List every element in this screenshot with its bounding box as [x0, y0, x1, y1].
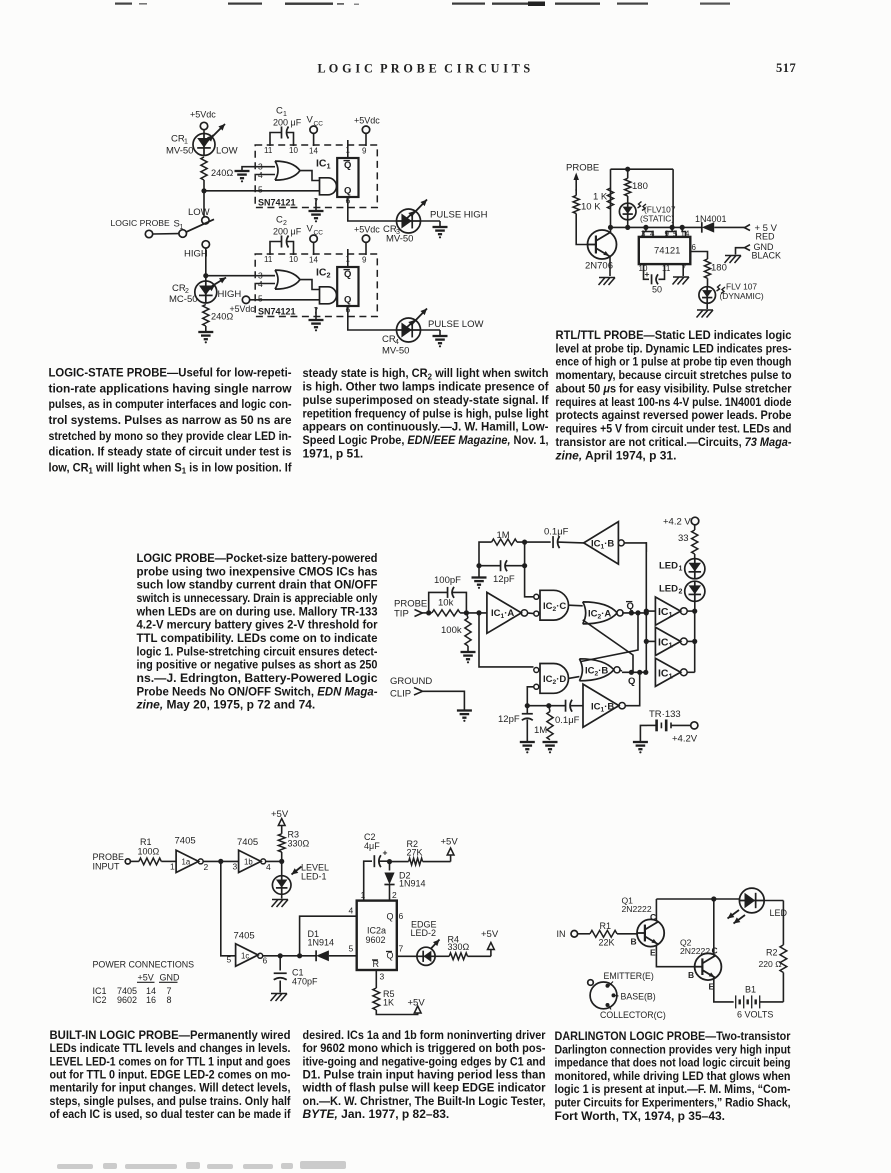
pin 6 output wire (IC2): [348, 306, 397, 330]
svg-text:LED: LED: [659, 561, 678, 572]
svg-text:MC-50: MC-50: [169, 294, 198, 305]
node junction CR1/S1/pin5: [201, 188, 206, 193]
input terminal: [145, 230, 178, 237]
Q1 emitter wire to Q2 base: [656, 945, 694, 967]
svg-text:5: 5: [258, 185, 263, 195]
inverter 1a: [170, 850, 209, 872]
NAND IC2-D: [534, 664, 569, 694]
LED output rail: [694, 611, 696, 672]
svg-text:Q: Q: [628, 676, 635, 687]
pin 1 wire (IC1): [347, 140, 349, 158]
junction dots on row: [608, 225, 685, 230]
svg-text:1a: 1a: [182, 858, 191, 867]
svg-text:monitored, while driving LED t: monitored, while driving LED that glows …: [555, 1069, 791, 1083]
svg-text:16: 16: [146, 995, 156, 1005]
svg-text:IC1​: IC1​: [316, 158, 331, 171]
right rail to battery: [782, 973, 784, 1002]
svg-text:requires +5 V from circuit und: requires +5 V from circuit under test. L…: [556, 422, 792, 436]
wire Qbar to LED-2: [397, 955, 417, 957]
svg-text:+5Vdc: +5Vdc: [354, 225, 380, 235]
pin 5 wire (IC1): [204, 190, 320, 192]
switch S1 upper contact LOW: [188, 207, 210, 224]
resistor 33: [678, 530, 698, 554]
svg-text:L O G I C P R O B E C I R C: L O G I C P R O B E C I R C U I T S: [317, 62, 530, 76]
buffer 1 wires: [644, 609, 698, 614]
wire to IC2-D bottom input: [527, 687, 533, 706]
svg-text:out for TTL 0 input. EDGE LED-: out for TTL 0 input. EDGE LED-2 comes on…: [50, 1068, 291, 1082]
svg-text:level at probe tip. Dynamic LE: level at probe tip. Dynamic LED indicate…: [556, 341, 792, 355]
wire node down to IC2-C top input: [525, 542, 534, 597]
Qbar node: [622, 601, 649, 616]
svg-text:when LEDs are on during use. M: when LEDs are on during use. Mallory TR-…: [136, 604, 378, 618]
svg-text:6: 6: [399, 911, 404, 921]
svg-text:TR·133: TR·133: [649, 709, 681, 720]
labels Q2: [680, 938, 718, 992]
node after 10k: [460, 610, 487, 615]
svg-text:TIP: TIP: [394, 609, 409, 620]
+5V R3 feed: [271, 809, 289, 834]
svg-text:11: 11: [264, 255, 273, 264]
pin 7 ground (IC1): [309, 198, 324, 222]
svg-text:protects against reversed powe: protects against reversed power leads. P…: [556, 408, 792, 422]
wire IC1-B bottom to Q: [625, 672, 639, 705]
svg-text:GND: GND: [160, 973, 181, 983]
svg-text:9: 9: [362, 256, 367, 265]
buffer 3 wires: [687, 671, 695, 673]
svg-text:14: 14: [309, 256, 318, 265]
svg-text:27K: 27K: [407, 848, 423, 858]
label PROBE TIP: [394, 599, 427, 620]
svg-text:+5Vdc: +5Vdc: [230, 304, 256, 314]
Q2 collector wire: [713, 899, 715, 956]
ground below 1M bottom: [543, 742, 558, 753]
svg-text:B: B: [688, 970, 694, 980]
wire OR output to AND input (IC1): [300, 171, 320, 181]
probe input arrow: [573, 173, 578, 192]
svg-text:+5Vdc: +5Vdc: [354, 116, 380, 126]
wire 33 to LED1: [694, 554, 696, 559]
svg-text:about 50 μs for easy visibilit: about 50 μs for easy visibility. Pulse s…: [556, 381, 792, 395]
+5Vdc terminal pin 9 (IC2): [354, 225, 380, 256]
ground below 12pF bottom: [520, 742, 535, 753]
inverter IC1-B bottom: [583, 684, 625, 727]
svg-text:HIGH: HIGH: [184, 249, 208, 260]
caption: BUILT-IN LOGIC PROBE col1: [50, 1028, 292, 1121]
svg-text:1: 1: [679, 566, 683, 573]
probe tip connector: [415, 610, 423, 617]
wire CR4 to ground: [421, 330, 441, 336]
resistor R4 330ohm: [435, 935, 491, 960]
svg-text:+5V: +5V: [271, 809, 289, 820]
svg-text:desired. ICs 1a and 1b form no: desired. ICs 1a and 1b form noninverting…: [303, 1028, 546, 1042]
svg-text:Q: Q: [344, 295, 351, 306]
svg-text:+4.2 V: +4.2 V: [663, 517, 691, 528]
label IN terminal: [557, 929, 591, 939]
transistor pinout circle: [588, 980, 617, 1009]
Q node: [619, 670, 648, 687]
resistor 1K: [593, 188, 614, 209]
svg-text:IC2a: IC2a: [367, 926, 386, 936]
svg-text:mentarily for input changes. W: mentarily for input changes. Will detect…: [50, 1081, 291, 1095]
svg-text:BASE(B): BASE(B): [621, 992, 656, 1002]
svg-text:B1: B1: [745, 985, 756, 995]
labels Q1: [622, 896, 657, 958]
label CR1 MV-50: [166, 134, 238, 157]
resistor R1 100ohm: [138, 837, 162, 865]
svg-text:puter Circuits for Experimente: puter Circuits for Experimenters,” Radio…: [555, 1096, 791, 1110]
wire up to pin 4: [300, 916, 357, 956]
LED FLV107 dynamic: [699, 287, 716, 304]
label 7405 (1b): [237, 837, 258, 848]
feedback rail left: [479, 542, 492, 577]
svg-text:LOGIC-STATE PROBE—Useful for l: LOGIC-STATE PROBE—Useful for low-repeti-: [49, 366, 292, 380]
svg-text:BUILT-IN LOGIC PROBE—Permanent: BUILT-IN LOGIC PROBE—Permanently wired: [50, 1028, 291, 1042]
resistor 180 (dynamic): [704, 259, 726, 278]
wire IC2-D to IC2-B: [569, 677, 580, 679]
svg-text:IC2·B: IC2·B: [585, 666, 608, 678]
svg-text:330Ω: 330Ω: [288, 839, 310, 849]
scan artifact: faint clipped text bottom edge: [57, 1161, 346, 1169]
node input junction: [422, 610, 432, 615]
svg-text:stretched by mono so they prov: stretched by mono so they provide clear …: [49, 429, 292, 443]
svg-text:IC2·D: IC2·D: [543, 674, 566, 686]
caption: LOGIC PROBE (CMOS): [136, 551, 378, 712]
svg-text:100pF: 100pF: [434, 575, 461, 586]
+5V RED connector: [745, 223, 778, 242]
svg-text:SN74121: SN74121: [258, 307, 296, 317]
svg-text:+: +: [645, 269, 650, 279]
cross coupling from Q: [583, 620, 633, 672]
svg-text:R1: R1: [600, 921, 612, 931]
diode D1 1N914: [308, 929, 335, 961]
svg-text:9602: 9602: [366, 935, 386, 945]
svg-text:HIGH: HIGH: [218, 289, 242, 300]
resistor 1M bottom: [534, 706, 553, 740]
caption: LOGIC-STATE PROBE col1: [49, 366, 293, 476]
resistor 10k: [432, 598, 460, 617]
wire junction to LED-1: [281, 861, 283, 876]
svg-text:BLACK: BLACK: [752, 251, 782, 261]
buffer 2 wires: [644, 639, 698, 644]
svg-text:2N2222: 2N2222: [680, 946, 710, 956]
LED FLV107 static: [619, 203, 636, 220]
inverter IC1-B top (facing left): [584, 522, 625, 564]
label FLV107 DYNAMIC: [720, 282, 764, 302]
LED CR2 MC-50: [195, 278, 226, 304]
svg-text:200 μF: 200 μF: [273, 118, 302, 128]
svg-text:+5Vdc: +5Vdc: [190, 110, 216, 120]
light squiggles static: [638, 202, 647, 211]
svg-text:LOGIC PROBE—Pocket-size batter: LOGIC PROBE—Pocket-size battery-powered: [137, 551, 378, 565]
svg-text:CR: CR: [171, 134, 185, 145]
NAND IC2-C: [534, 590, 569, 620]
resistor R2 220ohm: [759, 945, 787, 973]
+5V arrow R4: [481, 929, 499, 956]
wire 1K top to rail: [610, 169, 612, 188]
transistor Q2 2N2222: [695, 953, 722, 980]
svg-text:CLIP: CLIP: [390, 689, 411, 700]
svg-text:C: C: [276, 106, 283, 117]
ground clip ground: [457, 711, 472, 722]
svg-text:4: 4: [349, 906, 354, 916]
switch S1 lower contact HIGH: [184, 241, 210, 260]
svg-text:1b: 1b: [244, 858, 253, 867]
svg-text:12pF: 12pF: [493, 574, 515, 585]
svg-text:LEDs indicate TTL levels and c: LEDs indicate TTL levels and changes in …: [50, 1041, 291, 1055]
svg-text:appears on continuously.—J. W.: appears on continuously.—J. W. Hamill, L…: [303, 420, 549, 434]
svg-text:6: 6: [263, 956, 268, 966]
svg-text:on.—K. W. Christner, The Built: on.—K. W. Christner, The Built-In Logic …: [303, 1094, 546, 1108]
node junction CR2/pin3: [203, 273, 208, 278]
svg-text:1971, p 51.: 1971, p 51.: [303, 446, 364, 460]
+4.2V terminal top: [663, 517, 699, 531]
probe input terminal: [125, 859, 139, 864]
resistor 240ohm (CR1): [201, 157, 233, 180]
svg-text:1N914: 1N914: [308, 938, 335, 948]
svg-text:IC1·B: IC1·B: [591, 539, 614, 551]
flipflop block (IC2): [337, 267, 358, 306]
svg-text:D1. Pulse train input having p: D1. Pulse train input having period less…: [303, 1068, 546, 1082]
ground right of CR3: [433, 227, 448, 238]
flipflop block (IC1): [337, 158, 358, 197]
resistor 1M top: [492, 530, 517, 545]
ground battery: [633, 742, 648, 753]
svg-text:ns.—J. Edrington, Battery-: ns.—J. Edrington, Battery-Powered Logic: [137, 671, 378, 685]
pin stubs 9 5: [667, 227, 677, 237]
svg-text:LED-1: LED-1: [301, 872, 327, 882]
svg-text:dication. If steady state of c: dication. If steady state of circuit und…: [49, 445, 292, 459]
svg-text:11: 11: [264, 146, 273, 155]
svg-text:for 9602 mono which is trigger: for 9602 mono which is triggered on both…: [303, 1041, 546, 1055]
+5Vdc terminal top: [190, 110, 216, 134]
svg-text:0.1μF: 0.1μF: [544, 527, 569, 538]
svg-text:6 VOLTS: 6 VOLTS: [737, 1010, 773, 1020]
svg-text:itive-going and negative-going: itive-going and negative-going edges by …: [303, 1054, 546, 1068]
svg-text:Q: Q: [344, 269, 351, 280]
svg-text:transistor are not critical.—C: transistor are not critical.—Circuits, 7…: [556, 435, 792, 449]
label GROUND CLIP: [390, 676, 432, 700]
wire cap to IC1-B top: [558, 541, 584, 544]
svg-text:SN74121: SN74121: [258, 198, 296, 208]
resistor R3 330ohm: [278, 830, 309, 862]
battery ground wire: [640, 725, 647, 741]
wire lower contact to junction 2: [205, 248, 207, 281]
svg-text:4μF: 4μF: [364, 841, 380, 851]
wire 10K to base: [576, 214, 588, 245]
svg-text:LOGIC PROBE: LOGIC PROBE: [111, 218, 170, 228]
svg-text:0.1μF: 0.1μF: [555, 715, 580, 726]
label CR3 MV-50: [383, 224, 413, 245]
svg-text:repetition frequency of pulse: repetition frequency of pulse is high, p…: [303, 406, 549, 420]
svg-text:74121: 74121: [654, 246, 680, 257]
collector wire to rail: [610, 188, 612, 233]
svg-text:10k: 10k: [438, 598, 454, 609]
svg-text:Q: Q: [344, 160, 351, 171]
svg-text:100k: 100k: [441, 625, 462, 636]
svg-text:PROBE: PROBE: [93, 852, 125, 862]
LED-1 LEVEL: [272, 876, 291, 895]
GND BLACK connector: [745, 242, 782, 261]
svg-text:1c: 1c: [241, 952, 249, 961]
svg-text:5: 5: [258, 294, 263, 304]
svg-text:IC2·C: IC2·C: [543, 601, 566, 613]
OR gate (IC1): [275, 161, 300, 180]
svg-text:DARLINGTON LOGIC PROBE—Two-tra: DARLINGTON LOGIC PROBE—Two-transistor: [555, 1029, 791, 1043]
svg-text:requires at least 100-ns 4-V p: requires at least 100-ns 4-V pulse. 1N40…: [556, 395, 792, 409]
ground for GND terminal: [725, 256, 742, 264]
buffer 3 IC1: [655, 658, 687, 686]
pin stubs 3 and 4: [643, 227, 653, 237]
wire resistor to junction: [203, 180, 205, 191]
diode 1N4001: [695, 214, 727, 233]
battery terminal +4.2V: [672, 722, 698, 745]
Q1 collector wire: [655, 899, 657, 922]
pin labels bottom 74121: [639, 264, 687, 273]
wire 1a to 1b: [203, 859, 238, 864]
svg-text:6: 6: [692, 243, 697, 252]
svg-text:1: 1: [170, 862, 175, 872]
svg-text:RED: RED: [756, 232, 776, 242]
wire LED2 to buffer junction: [694, 601, 696, 611]
svg-text:logic 1 is present at input.—F: logic 1 is present at input.—F. M. Mims,…: [555, 1082, 791, 1096]
top rail: [611, 167, 674, 172]
resistor 240ohm (CR2): [203, 305, 234, 327]
LED CR3 MV-50 output: [397, 200, 428, 234]
wire static LED to junction row: [627, 220, 629, 228]
wire 180 to dynamic LED: [707, 278, 709, 287]
svg-text:11: 11: [662, 264, 671, 273]
ground below 100k: [461, 652, 476, 663]
svg-text:517: 517: [776, 61, 796, 75]
caption: RTL/TTL PROBE: [555, 328, 792, 462]
svg-text:Q: Q: [344, 186, 351, 197]
Vcc terminal pin 14 (IC1): [307, 115, 324, 147]
label LOGIC PROBE: [111, 218, 170, 228]
wire pin1 to C2: [364, 861, 372, 900]
svg-text:zine, April 1974, p 31.: zine, April 1974, p 31.: [555, 448, 677, 462]
page number 517: [776, 61, 796, 75]
label CR4 MV-50: [382, 334, 409, 357]
svg-text:C: C: [650, 912, 656, 922]
svg-text:C: C: [276, 215, 283, 226]
svg-text:2: 2: [679, 589, 683, 596]
svg-text:COLLECTOR(C): COLLECTOR(C): [600, 1010, 666, 1020]
wire junction2 to pin 3 of IC2: [206, 275, 275, 277]
svg-text:BYTE, Jan. 1977, p 82–83.: BYTE, Jan. 1977, p 82–83.: [303, 1107, 450, 1121]
svg-text:180: 180: [711, 263, 727, 274]
svg-text:logic 1. Pulse-stretching circ: logic 1. Pulse-stretching circuit ensure…: [137, 644, 378, 658]
IC1 SN74121 dashed box: [255, 145, 377, 208]
label PULSE LOW: [428, 319, 483, 330]
svg-text:2: 2: [392, 890, 397, 900]
svg-text:1M: 1M: [534, 725, 547, 736]
battery TR-133: [647, 709, 691, 731]
wire R1 to 1a: [161, 860, 176, 862]
resistor R1 22K (darlington): [590, 921, 637, 948]
ground below CR2 resistor: [198, 326, 213, 343]
svg-text:impedance that does not load l: impedance that does not load logic circu…: [555, 1056, 791, 1070]
svg-text:LEVEL LED-1 comes on for TTL 1: LEVEL LED-1 comes on for TTL 1 input and…: [50, 1054, 291, 1068]
pin 6 wire: [690, 243, 707, 259]
svg-text:4: 4: [266, 862, 271, 872]
pin labels 9602: [349, 890, 404, 982]
LED CR4 MV-50 output: [397, 309, 428, 343]
pin 7 ground: [673, 264, 690, 284]
svg-text:MV-50: MV-50: [386, 234, 413, 245]
AND gate (IC2): [320, 287, 337, 304]
svg-text:LED: LED: [770, 908, 788, 918]
svg-text:10 K: 10 K: [581, 202, 601, 213]
wire LED to right rail: [764, 900, 783, 902]
svg-text:2N2222: 2N2222: [622, 904, 652, 914]
wire IC1-B top out to rail: [624, 543, 646, 552]
svg-text:of each IC is used, so dual te: of each IC is used, so dual tester can b…: [50, 1107, 292, 1121]
svg-text:7405: 7405: [237, 837, 258, 848]
caption: BUILT-IN LOGIC PROBE col2: [302, 1028, 546, 1121]
svg-text:4.2-V mercury battery gives 2-: 4.2-V mercury battery gives 2-V threshol…: [137, 618, 378, 632]
light squiggles dynamic: [717, 285, 726, 294]
svg-text:TTL compatibility. LEDs come o: TTL compatibility. LEDs come on to indic…: [137, 631, 378, 645]
svg-text:R2: R2: [766, 948, 778, 958]
buffer rail vertical: [645, 542, 647, 672]
cross coupling from Qbar: [581, 613, 638, 662]
inverter 1b: [233, 850, 272, 872]
label LEVEL LED-1: [292, 863, 330, 882]
IC 74121 box: [639, 237, 691, 264]
svg-text:9: 9: [362, 147, 367, 156]
svg-text:12pF: 12pF: [498, 714, 520, 725]
svg-text:1N914: 1N914: [399, 879, 426, 889]
svg-text:PULSE LOW: PULSE LOW: [428, 319, 483, 330]
buffer 1 IC1: [655, 597, 687, 625]
svg-text:2: 2: [204, 862, 209, 872]
svg-text:EMITTER(E): EMITTER(E): [604, 971, 654, 981]
IC2a 9602 box: [357, 901, 397, 970]
resistor R5 1K: [373, 988, 395, 1010]
svg-text:E: E: [650, 948, 656, 958]
gnd wire: [736, 248, 745, 255]
LED-2 EDGE: [417, 940, 440, 966]
scan artifact: clipped text top edge: [115, 2, 730, 7]
svg-text:RTL/TTL PROBE—Static LED indic: RTL/TTL PROBE—Static LED indicates logic: [556, 328, 792, 342]
label PULSE HIGH: [430, 210, 488, 221]
svg-text:Q: Q: [387, 912, 394, 922]
Q2 emitter wire to battery: [714, 978, 734, 1002]
resistor 100k: [441, 613, 471, 652]
label 7405 (1c): [234, 931, 255, 942]
ground right of CR4: [433, 336, 448, 347]
svg-text:PROBE: PROBE: [566, 163, 599, 174]
caption: LOGIC-STATE PROBE col2: [303, 366, 550, 460]
wire R5 to +5V: [376, 1010, 417, 1015]
capacitor 0.1uF bottom: [549, 700, 583, 726]
+5Vdc terminal pin 5 (IC2): [230, 296, 256, 314]
wire diode to +5V terminal: [714, 226, 745, 228]
capacitor C2 200uF: [270, 215, 302, 256]
svg-text:Probe Needs No ON/OFF Switch,: Probe Needs No ON/OFF Switch, EDN Maga-: [137, 684, 378, 698]
svg-text:ence of high or 1 pulse at pro: ence of high or 1 pulse at probe tip eve…: [556, 355, 792, 369]
svg-text:zine, May 20, 1975, p 72 and 7: zine, May 20, 1975, p 72 and 74.: [136, 698, 316, 712]
wire D1 to pin 5: [329, 955, 357, 957]
resistor 10K: [573, 189, 601, 214]
wire pin 3 to R5: [375, 970, 377, 988]
capacitor C2 4uF: [364, 832, 392, 867]
svg-text:POWER CONNECTIONS: POWER CONNECTIONS: [93, 960, 195, 970]
svg-text:IN: IN: [557, 929, 566, 939]
battery B1 6 volts: [736, 985, 784, 1020]
pin stub 14: [682, 227, 685, 237]
+5V arrow R5: [408, 998, 426, 1014]
